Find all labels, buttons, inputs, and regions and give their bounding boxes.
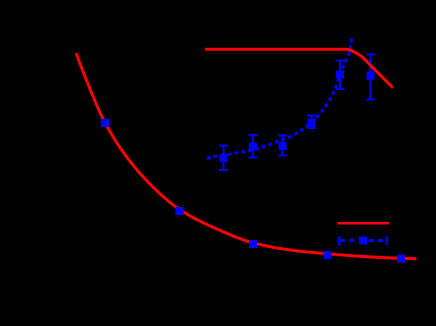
legend entry 1: red solid line: [338, 222, 389, 225]
main-curve data marker M4: [324, 251, 332, 259]
blue dashed rising model curve (inset): [207, 37, 352, 159]
legend entry 2: blue dashed line with square marker and error-bar end caps: [338, 236, 388, 245]
main-curve data marker M2: [175, 207, 183, 215]
inset data point E: square marker with vertical error bar: [335, 60, 344, 90]
inset data point C: square marker with vertical error bar: [278, 134, 287, 156]
main red exponential-decay curve: [76, 53, 417, 259]
inset data point B: square marker with vertical error bar: [249, 134, 258, 158]
inset data point D: square marker with vertical error bar: [307, 114, 316, 129]
main-curve data marker M3: [249, 240, 257, 248]
inset red model curve (flat then falling): [205, 49, 393, 87]
inset data point A: square marker with vertical error bar: [219, 144, 228, 171]
inset data point F: square marker with vertical error bar: [366, 54, 375, 101]
main-curve data marker M1: [101, 119, 109, 127]
main-curve data marker M5: [397, 254, 405, 262]
